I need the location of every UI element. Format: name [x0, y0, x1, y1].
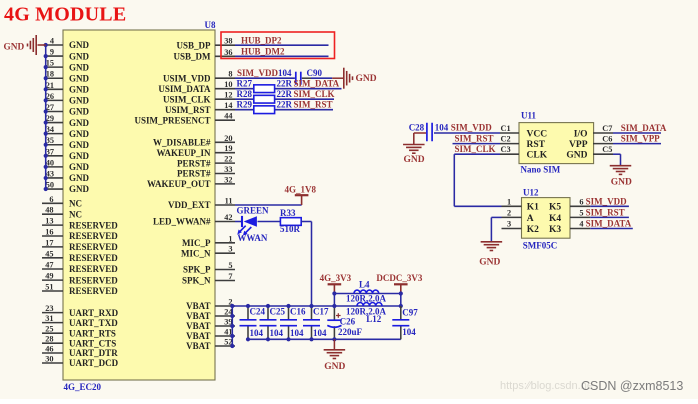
- svg-text:RESERVED: RESERVED: [69, 253, 118, 263]
- svg-text:K3: K3: [549, 225, 561, 235]
- svg-text:USIM_PRESENCT: USIM_PRESENCT: [134, 115, 210, 125]
- svg-text:SMF05C: SMF05C: [523, 240, 558, 250]
- svg-text:USIM_DATA: USIM_DATA: [158, 84, 211, 94]
- svg-text:GND: GND: [69, 140, 90, 150]
- svg-text:HUB_DM2: HUB_DM2: [241, 47, 285, 57]
- svg-text:SIM_DATA: SIM_DATA: [621, 123, 667, 133]
- svg-text:GND: GND: [479, 258, 500, 268]
- svg-text:31: 31: [45, 314, 53, 323]
- svg-text:45: 45: [45, 249, 53, 258]
- svg-text:RESERVED: RESERVED: [69, 220, 118, 230]
- svg-text:USB_DP: USB_DP: [176, 40, 211, 50]
- svg-text:1: 1: [228, 234, 232, 243]
- svg-text:17: 17: [45, 238, 53, 247]
- svg-text:510R: 510R: [280, 224, 301, 234]
- svg-text:22: 22: [224, 155, 232, 164]
- svg-text:SIM_VPP: SIM_VPP: [621, 134, 660, 144]
- svg-text:K5: K5: [549, 203, 561, 213]
- svg-text:R33: R33: [280, 208, 296, 218]
- svg-text:PERST#: PERST#: [177, 158, 211, 168]
- svg-text:4: 4: [50, 37, 54, 46]
- svg-text:UART_DCD: UART_DCD: [69, 358, 119, 368]
- svg-text:CSDN @zxm8513: CSDN @zxm8513: [581, 379, 683, 393]
- svg-text:GND: GND: [69, 85, 90, 95]
- svg-text:VBAT: VBAT: [186, 321, 210, 331]
- svg-text:C1: C1: [501, 124, 511, 133]
- svg-text:10: 10: [224, 80, 232, 89]
- svg-text:104: 104: [270, 328, 284, 338]
- svg-text:104: 104: [402, 327, 416, 337]
- svg-text:Nano SIM: Nano SIM: [521, 164, 561, 174]
- svg-text:6: 6: [579, 197, 583, 206]
- svg-text:22R: 22R: [277, 79, 293, 89]
- svg-text:VBAT: VBAT: [186, 331, 210, 341]
- svg-text:GND: GND: [356, 74, 377, 84]
- svg-text:SPK_P: SPK_P: [183, 265, 211, 275]
- svg-text:44: 44: [224, 112, 232, 121]
- svg-text:SIM_RST: SIM_RST: [294, 100, 333, 110]
- svg-text:VCC: VCC: [527, 129, 548, 139]
- svg-text:46: 46: [45, 345, 53, 354]
- svg-text:K4: K4: [549, 214, 561, 224]
- svg-text:USIM_VDD: USIM_VDD: [163, 73, 211, 83]
- svg-text:3: 3: [228, 245, 232, 254]
- svg-text:13: 13: [45, 217, 53, 226]
- svg-text:C26: C26: [340, 317, 356, 327]
- svg-text:36: 36: [224, 48, 232, 57]
- svg-text:GND: GND: [69, 184, 90, 194]
- svg-text:47: 47: [45, 261, 53, 270]
- svg-text:NC: NC: [69, 209, 82, 219]
- svg-text:5: 5: [579, 208, 583, 217]
- svg-text:GND: GND: [69, 40, 90, 50]
- svg-text:4: 4: [579, 220, 583, 229]
- svg-text:CLK: CLK: [527, 151, 548, 161]
- svg-text:8: 8: [228, 70, 232, 79]
- svg-text:22R: 22R: [277, 100, 293, 110]
- svg-text:11: 11: [225, 197, 233, 206]
- svg-text:NC: NC: [69, 199, 82, 209]
- svg-text:UART_CTS: UART_CTS: [69, 338, 116, 348]
- svg-text:14: 14: [224, 101, 232, 110]
- svg-text:R27: R27: [237, 79, 253, 89]
- svg-text:12: 12: [224, 91, 232, 100]
- svg-text:16: 16: [45, 228, 53, 237]
- svg-text:9: 9: [50, 48, 54, 57]
- svg-text:30: 30: [45, 355, 53, 364]
- svg-text:VDD_EXT: VDD_EXT: [168, 200, 211, 210]
- svg-text:GND: GND: [404, 155, 425, 165]
- svg-text:GND: GND: [69, 118, 90, 128]
- svg-text:32: 32: [224, 175, 232, 184]
- svg-text:C2: C2: [501, 135, 511, 144]
- svg-text:VBAT: VBAT: [186, 301, 210, 311]
- svg-text:22R: 22R: [277, 89, 293, 99]
- svg-text:49: 49: [45, 272, 53, 281]
- svg-text:104: 104: [278, 68, 292, 78]
- svg-text:42: 42: [224, 213, 232, 222]
- svg-text:GND: GND: [69, 51, 90, 61]
- svg-text:K1: K1: [527, 203, 539, 213]
- svg-text:28: 28: [45, 335, 53, 344]
- svg-text:R29: R29: [237, 100, 253, 110]
- svg-text:5: 5: [228, 261, 232, 270]
- svg-text:VBAT: VBAT: [186, 341, 210, 351]
- svg-text:R28: R28: [237, 89, 253, 99]
- svg-text:C28: C28: [409, 123, 425, 133]
- svg-text:2: 2: [507, 208, 511, 217]
- svg-text:USIM_CLK: USIM_CLK: [163, 94, 211, 104]
- svg-text:7: 7: [228, 272, 232, 281]
- svg-text:WAKEUP_OUT: WAKEUP_OUT: [147, 179, 211, 189]
- svg-text:1: 1: [507, 197, 511, 206]
- svg-text:U8: U8: [205, 20, 216, 30]
- svg-text:4G MODULE: 4G MODULE: [4, 4, 126, 26]
- svg-text:104: 104: [435, 123, 449, 133]
- svg-text:GND: GND: [69, 73, 90, 83]
- svg-text:WAKEUP_IN: WAKEUP_IN: [156, 148, 211, 158]
- svg-text:SIM_RST: SIM_RST: [586, 207, 625, 217]
- svg-text:MIC_N: MIC_N: [181, 248, 211, 258]
- svg-text:6: 6: [49, 195, 53, 204]
- svg-text:104: 104: [313, 328, 327, 338]
- svg-text:RST: RST: [527, 140, 546, 150]
- svg-text:GND: GND: [69, 173, 90, 183]
- svg-text:UART_DTR: UART_DTR: [69, 348, 118, 358]
- svg-text:SIM_VDD: SIM_VDD: [237, 68, 279, 78]
- svg-text:GND: GND: [69, 62, 90, 72]
- svg-text:GND: GND: [324, 362, 345, 372]
- svg-text:K2: K2: [527, 225, 539, 235]
- svg-text:L4: L4: [359, 280, 370, 290]
- svg-text:GREEN: GREEN: [237, 205, 270, 215]
- svg-text:SIM_CLK: SIM_CLK: [455, 144, 496, 154]
- svg-text:RESERVED: RESERVED: [69, 242, 118, 252]
- svg-text:GND: GND: [69, 162, 90, 172]
- svg-text:33: 33: [224, 165, 232, 174]
- svg-text:I/O: I/O: [574, 129, 588, 139]
- svg-text:L12: L12: [366, 314, 382, 324]
- svg-text:U11: U11: [521, 111, 537, 121]
- svg-text:VBAT: VBAT: [186, 311, 210, 321]
- svg-text:220uF: 220uF: [338, 327, 363, 337]
- svg-text:20: 20: [224, 134, 232, 143]
- svg-text:GND: GND: [69, 96, 90, 106]
- svg-text:U12: U12: [523, 188, 539, 198]
- svg-text:GND: GND: [4, 42, 25, 52]
- svg-text:C90: C90: [307, 68, 323, 78]
- svg-text:SIM_CLK: SIM_CLK: [294, 89, 335, 99]
- svg-text:W_DISABLE#: W_DISABLE#: [153, 138, 211, 148]
- svg-text:C97: C97: [402, 307, 418, 317]
- svg-text:104: 104: [250, 328, 264, 338]
- svg-text:SIM_DATA: SIM_DATA: [586, 219, 632, 229]
- svg-text:UART_RTS: UART_RTS: [69, 328, 116, 338]
- svg-text:VPP: VPP: [569, 140, 588, 150]
- svg-text:SPK_N: SPK_N: [182, 276, 211, 286]
- svg-text:C5: C5: [602, 145, 612, 154]
- svg-text:LED_WWAN#: LED_WWAN#: [153, 217, 211, 227]
- svg-text:3: 3: [507, 220, 511, 229]
- svg-text:MIC_P: MIC_P: [182, 238, 211, 248]
- svg-text:C16: C16: [290, 307, 306, 317]
- svg-text:USIM_RST: USIM_RST: [165, 105, 211, 115]
- svg-text:C25: C25: [270, 307, 286, 317]
- svg-text:DCDC_3V3: DCDC_3V3: [376, 273, 422, 283]
- svg-text:RESERVED: RESERVED: [69, 264, 118, 274]
- svg-text:GND: GND: [611, 178, 632, 188]
- svg-text:4G_EC20: 4G_EC20: [64, 382, 102, 392]
- svg-text:https:∕∕blog.csdn.ne: https:∕∕blog.csdn.ne: [500, 380, 593, 392]
- svg-text:USB_DM: USB_DM: [173, 52, 211, 62]
- svg-text:4G_1V8: 4G_1V8: [285, 185, 317, 195]
- svg-text:19: 19: [224, 144, 232, 153]
- svg-text:A: A: [527, 214, 534, 224]
- svg-text:WWAN: WWAN: [237, 233, 268, 243]
- svg-text:48: 48: [45, 206, 53, 215]
- svg-text:SIM_VDD: SIM_VDD: [586, 196, 628, 206]
- svg-text:SIM_RST: SIM_RST: [455, 133, 494, 143]
- svg-text:RESERVED: RESERVED: [69, 286, 118, 296]
- svg-text:RESERVED: RESERVED: [69, 275, 118, 285]
- svg-text:C7: C7: [602, 124, 612, 133]
- svg-text:GND: GND: [566, 151, 587, 161]
- svg-text:25: 25: [45, 325, 53, 334]
- svg-text:38: 38: [224, 37, 232, 46]
- svg-text:23: 23: [45, 304, 53, 313]
- svg-text:SIM_VDD: SIM_VDD: [451, 123, 493, 133]
- svg-text:GND: GND: [69, 107, 90, 117]
- svg-text:104: 104: [290, 328, 304, 338]
- svg-text:GND: GND: [69, 129, 90, 139]
- svg-text:UART_TXD: UART_TXD: [69, 318, 118, 328]
- svg-text:UART_RXD: UART_RXD: [69, 308, 119, 318]
- svg-text:4G_3V3: 4G_3V3: [320, 273, 352, 283]
- svg-text:HUB_DP2: HUB_DP2: [241, 35, 282, 45]
- svg-text:GND: GND: [69, 151, 90, 161]
- svg-text:C17: C17: [313, 307, 329, 317]
- svg-text:RESERVED: RESERVED: [69, 231, 118, 241]
- svg-text:SIM_DATA: SIM_DATA: [294, 79, 340, 89]
- svg-text:C3: C3: [501, 145, 511, 154]
- svg-text:C24: C24: [250, 307, 266, 317]
- svg-text:C6: C6: [602, 135, 612, 144]
- svg-text:51: 51: [45, 283, 53, 292]
- svg-text:PERST#: PERST#: [177, 169, 211, 179]
